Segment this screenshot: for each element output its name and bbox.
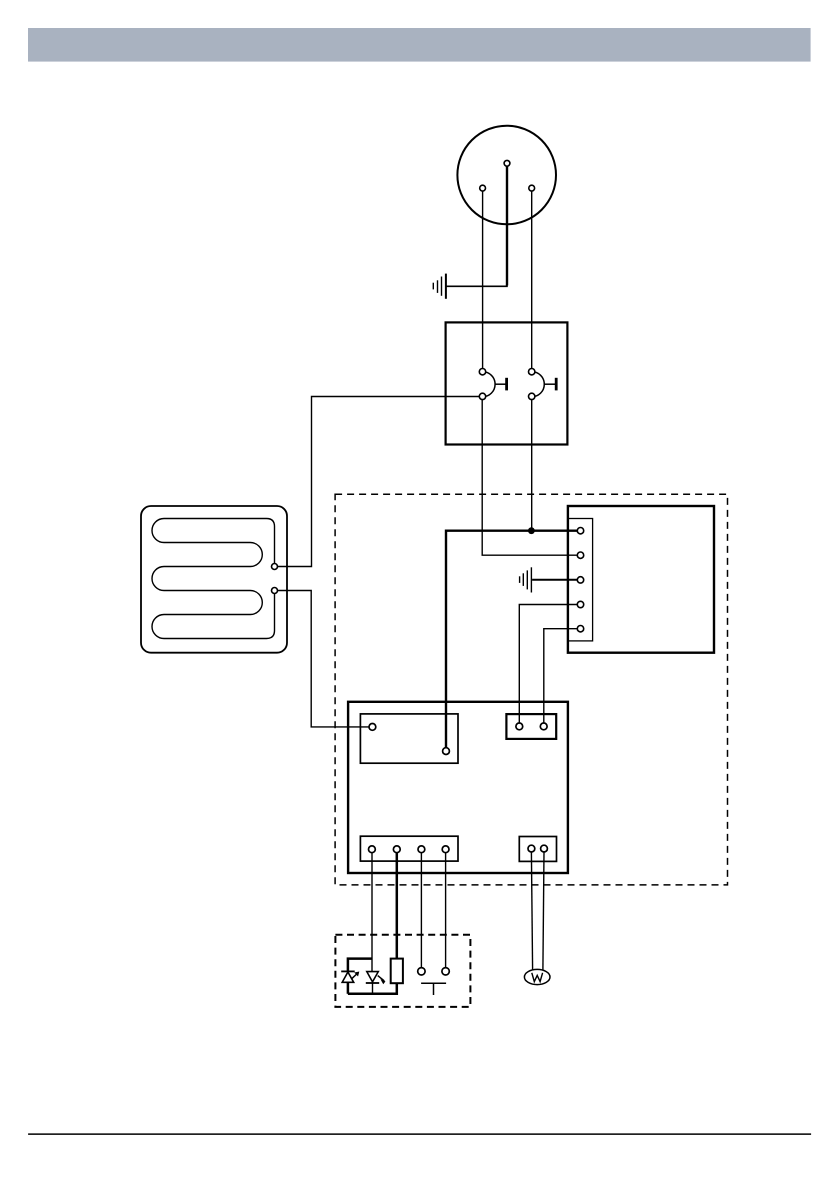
header bar: [28, 28, 811, 62]
relay K1 pin b: [443, 748, 450, 755]
wire motor L to switch S1: [482, 191, 484, 369]
probe pin 1: [418, 968, 425, 975]
switch S2: [529, 369, 557, 400]
LED D2: [366, 972, 385, 984]
wire live bus to control board: [446, 531, 578, 748]
switch S1: [479, 369, 506, 400]
wire switch S2 down to junction: [531, 400, 533, 529]
wire J3.2 to resistor R1: [396, 853, 399, 959]
wire LED bridge: [348, 959, 372, 972]
control board: [348, 702, 568, 873]
dashed indicator module box: [335, 935, 470, 1007]
wire motor R to switch S2: [531, 191, 533, 369]
wire resistor bottom: [348, 983, 397, 994]
dashed appliance enclosure: [335, 494, 727, 885]
terminal strip X1: [568, 519, 593, 641]
relay block K1: [360, 714, 458, 763]
wire switch S1 to terminal 2: [482, 400, 577, 555]
connector J3 pin 2: [393, 846, 400, 853]
wire LED D2 cathode down: [372, 983, 374, 994]
relay K1 pin a: [369, 724, 376, 731]
junction dot: [528, 527, 535, 534]
wire J4.2 to pump: [543, 852, 544, 970]
heating element terminal 1: [272, 564, 278, 570]
wire ground G2 to terminal 3: [532, 579, 577, 581]
wire J4.1 to pump: [531, 852, 532, 970]
connector J4 pin 1: [528, 845, 535, 852]
wire terminal 5 to board block: [544, 629, 577, 723]
wire J3.3 to probe pin: [420, 853, 422, 968]
motor M1 terminal pin R: [529, 185, 535, 191]
ground G2: [520, 567, 532, 592]
wire motor center to ground: [506, 166, 508, 285]
probe plate: [421, 983, 446, 995]
heating element outline: [141, 506, 287, 653]
connector J3 pin 4: [442, 846, 449, 853]
motor M1 body: [457, 126, 556, 225]
wire J3.4 to probe pin: [445, 853, 447, 968]
connector J3 pin 3: [418, 846, 425, 853]
power module box: [568, 506, 714, 653]
board connector J4: [519, 837, 556, 862]
connector J4 pin 2: [541, 845, 548, 852]
terminal strip pin 1: [577, 528, 583, 534]
resistor R1: [391, 959, 403, 984]
wire heater T2 to control board: [278, 591, 369, 727]
probe pin 2: [442, 968, 449, 975]
heating element terminal 2: [272, 588, 278, 594]
wire J3.1 to LED D2: [371, 853, 373, 972]
LED D1: [341, 971, 359, 982]
ground G1: [433, 274, 446, 299]
motor M1 terminal pin C: [504, 160, 510, 166]
board connector J2: [506, 714, 556, 739]
wire heater T1 to switch S1: [278, 397, 480, 567]
terminal strip pin 2: [577, 552, 583, 558]
terminal strip pin 5: [577, 626, 583, 632]
wire LED D1 cathode down: [347, 982, 350, 994]
board connector J3: [360, 836, 458, 861]
footer rule: [28, 1133, 811, 1135]
connector J2 pin 2: [540, 723, 547, 730]
motor M1 terminal pin L: [480, 185, 486, 191]
connector J2 pin 1: [516, 723, 523, 730]
terminal strip pin 3: [577, 577, 583, 583]
wire terminal 4 to board block: [519, 605, 577, 723]
connector J3 pin 1: [369, 846, 376, 853]
pump motor W: [524, 969, 550, 984]
terminal strip pin 4: [577, 601, 583, 607]
switch box: [446, 322, 568, 444]
heating element coil: [152, 519, 275, 639]
